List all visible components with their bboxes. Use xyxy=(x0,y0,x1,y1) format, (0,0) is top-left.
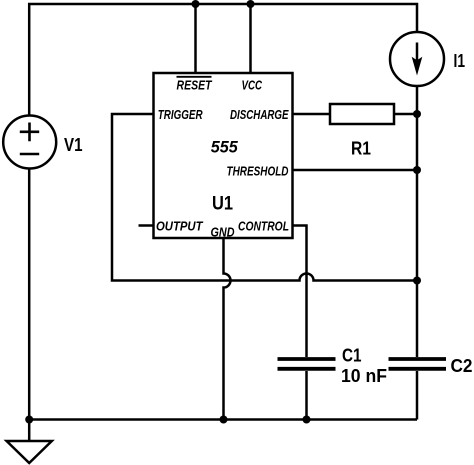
svg-text:555: 555 xyxy=(211,138,239,157)
svg-text:C1: C1 xyxy=(342,346,362,366)
svg-text:RESET: RESET xyxy=(177,79,213,93)
svg-text:10 nF: 10 nF xyxy=(341,366,387,386)
svg-text:R1: R1 xyxy=(351,139,371,159)
svg-text:C2: C2 xyxy=(451,356,473,376)
svg-text:V1: V1 xyxy=(64,135,83,155)
svg-text:DISCHARGE: DISCHARGE xyxy=(230,108,289,122)
svg-text:GND: GND xyxy=(211,226,235,240)
svg-text:U1: U1 xyxy=(212,193,233,215)
svg-text:I1: I1 xyxy=(454,51,466,71)
svg-text:OUTPUT: OUTPUT xyxy=(156,220,204,234)
svg-text:THRESHOLD: THRESHOLD xyxy=(227,165,289,179)
svg-text:VCC: VCC xyxy=(242,79,263,93)
svg-text:CONTROL: CONTROL xyxy=(238,220,289,234)
svg-text:TRIGGER: TRIGGER xyxy=(158,108,203,122)
